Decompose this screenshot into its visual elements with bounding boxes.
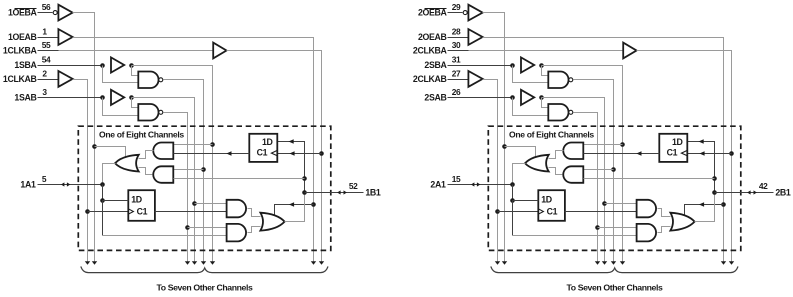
svg-text:One of Eight Channels: One of Eight Channels <box>509 130 594 140</box>
buffer 2CLKAB <box>468 71 482 87</box>
svg-text:1OEAB: 1OEAB <box>8 32 37 42</box>
buffer 1CLKAB <box>58 71 72 87</box>
arrow on OEAB enable wire <box>699 202 704 207</box>
svg-text:3: 3 <box>42 87 47 97</box>
AND gate A1m (SBA and B-register) <box>563 143 583 160</box>
junction 2A1 node <box>510 182 515 187</box>
arrow on B register data wire <box>289 139 294 144</box>
wire A real-time data riser <box>102 201 104 236</box>
svg-text:15: 15 <box>452 174 461 184</box>
wire A register Q to B-mux AND gate <box>565 211 637 213</box>
wire 2B1 pin to channel <box>715 192 774 194</box>
wire 2SBA raw to NAND <box>513 66 549 83</box>
svg-text:1OEBA: 1OEBA <box>8 8 38 18</box>
svg-text:27: 27 <box>452 68 461 78</box>
NAND gate G1 (inverts 1SBA) <box>138 72 158 89</box>
svg-text:29: 29 <box>452 2 461 12</box>
wire A1m output into A output OR gate <box>549 151 564 159</box>
wire B2m output into B output OR gate <box>658 227 671 233</box>
brace to seven other channels <box>81 266 328 272</box>
junction SAB-bar to B mux <box>595 225 600 230</box>
inverter bubble on 2OEBA buffer <box>463 11 467 15</box>
wire 2SBA input stub <box>448 65 513 67</box>
wire SAB select to B-mux AND gate <box>605 203 637 205</box>
NAND gate G2 (inverts 1SAB) <box>138 104 158 121</box>
AND gate B2m (SAB-bar and A real-time) <box>227 224 246 242</box>
wire SAB select to B-mux AND gate <box>195 203 227 205</box>
AND gate A2m (SBA-bar and B real-time) <box>153 166 173 183</box>
junction 1SBA raw <box>100 63 105 68</box>
wire G1 output (SBA-bar) bus <box>164 80 204 262</box>
wire G2 output (SAB-bar) bus <box>574 113 598 262</box>
wire A register Q to B-mux AND gate <box>155 211 227 213</box>
svg-text:2CLKAB: 2CLKAB <box>413 74 447 84</box>
wire 2SBA buffered to NAND top input <box>542 66 549 76</box>
buffer 2SBA <box>521 57 534 72</box>
wire 1SBA raw to NAND <box>103 66 139 83</box>
wire 1OEBA input stub <box>38 12 53 14</box>
junction 1SAB raw <box>100 95 105 100</box>
svg-text:5: 5 <box>42 174 47 184</box>
wire A driver output to A1 pin node <box>513 164 526 185</box>
buffer 1OEAB <box>58 29 72 45</box>
flip-flop A register (1D C1) <box>128 190 155 221</box>
arrow SAB-bar bus to other channels <box>185 261 190 265</box>
wire A1m output into A output OR gate <box>139 151 154 159</box>
AND gate B1m (SAB and A-register) <box>637 200 656 218</box>
wire 2SBA buffered select bus <box>542 66 623 262</box>
junction 2SBA raw <box>510 63 515 68</box>
wire 1SAB raw to NAND <box>103 98 139 116</box>
AND gate B2m (SAB-bar and A real-time) <box>637 224 656 242</box>
arrow OEBA-bus to other channels <box>92 261 97 265</box>
wire CLKBA to C1 of B flip-flop <box>688 153 732 155</box>
OR gate B output driver <box>260 213 284 231</box>
wire OEAB enable into B output gate <box>685 205 724 216</box>
arrow SBA-bus to other channels <box>620 261 625 265</box>
arrow CLKAB-bus to other channels <box>495 261 500 265</box>
wire 1CLKAB input stub <box>38 79 59 81</box>
svg-text:C1: C1 <box>547 207 558 217</box>
svg-text:C1: C1 <box>137 207 148 217</box>
NAND gate G1 (inverts 2SBA) <box>548 72 568 89</box>
wire A real-time data riser <box>512 201 514 236</box>
wire 1SAB buffered to NAND top input <box>132 98 139 108</box>
svg-text:26: 26 <box>452 87 461 97</box>
junction 2SBA buffered <box>539 63 544 68</box>
wire 2SAB buffered select bus <box>542 98 605 262</box>
arrow SBA-bar bus to other channels <box>201 261 206 265</box>
wire B1 node riser to B register data <box>278 142 305 193</box>
wire 2CLKAB input stub <box>448 79 469 81</box>
svg-text:1SAB: 1SAB <box>14 93 36 103</box>
svg-text:1CLKBA: 1CLKBA <box>3 46 38 56</box>
wire 1SAB buffered select bus <box>132 98 195 262</box>
junction CLKAB to A flip-flop clock <box>495 209 500 214</box>
svg-text:31: 31 <box>452 54 461 64</box>
junction CLKBA to B flip-flop clock <box>729 151 734 156</box>
wire SBA select to A-mux AND gate <box>174 144 213 146</box>
flip-flop B register (1D C1) <box>659 134 687 162</box>
junction CLKBA to B flip-flop clock <box>319 151 324 156</box>
wire 1A1 pin to channel <box>38 184 103 186</box>
buffer 1CLKBA <box>213 43 226 59</box>
svg-text:2A1: 2A1 <box>430 179 446 189</box>
junction OEBA enable branch <box>502 144 507 149</box>
wire SBA-bar to A-mux AND gate <box>584 169 614 171</box>
wire OEBA enable into A output gate <box>505 147 536 158</box>
svg-text:30: 30 <box>452 40 461 50</box>
arrow SAB-bus to other channels <box>192 261 197 265</box>
junction 1SAB buffered <box>129 95 134 100</box>
arrow SAB-bar bus to other channels <box>595 261 600 265</box>
arrow on B register Q wire <box>226 151 231 156</box>
svg-text:55: 55 <box>42 40 51 50</box>
dashed box: one of eight channels <box>488 126 741 250</box>
wire CLKAB to C1 of A flip-flop <box>498 211 539 213</box>
wire 2OEBA buffered to A-side enable bus <box>483 13 505 262</box>
svg-text:42: 42 <box>759 181 768 191</box>
wire 1OEAB input stub <box>38 37 59 39</box>
wire CLKAB to C1 of A flip-flop <box>88 211 129 213</box>
wire B driver output to B1 pin node <box>695 193 715 222</box>
wire G2 output (SAB-bar) bus <box>164 113 188 262</box>
OR gate A output driver <box>115 155 139 172</box>
buffer 1SBA <box>111 57 124 72</box>
wire 2CLKBA buffered to clock bus <box>637 51 732 262</box>
wire CLKBA to C1 of B flip-flop <box>278 153 322 155</box>
junction OEAB enable branch <box>311 202 316 207</box>
wire 1CLKAB buffered clock bus <box>73 80 88 262</box>
arrow on B register data wire <box>699 139 704 144</box>
junction B1 node <box>712 190 717 195</box>
wire 1SBA buffered to NAND top input <box>132 66 139 76</box>
wire A driver output to A1 pin node <box>103 164 116 185</box>
svg-text:54: 54 <box>42 54 51 64</box>
wire B driver output to B1 pin node <box>285 193 305 222</box>
wire OEAB enable into B output gate <box>275 205 314 216</box>
svg-text:1D: 1D <box>672 137 683 147</box>
arrow CLKBA-bus to other channels <box>319 261 324 265</box>
wire SAB-bar to B-mux AND gate <box>188 227 227 229</box>
junction OEBA enable branch <box>92 144 97 149</box>
arrow OEAB-bus to other channels <box>311 261 316 265</box>
arrow on B flip-flop clock wire <box>699 151 704 156</box>
svg-text:1A1: 1A1 <box>20 179 36 189</box>
svg-text:C1: C1 <box>667 148 678 158</box>
arrow on OEAB enable wire <box>289 202 294 207</box>
AND gate A1m (SBA and B-register) <box>153 143 173 160</box>
svg-text:C1: C1 <box>257 148 268 158</box>
junction SBA select to A mux <box>210 142 215 147</box>
svg-text:2OEBA: 2OEBA <box>418 8 448 18</box>
svg-text:2CLKBA: 2CLKBA <box>413 46 448 56</box>
svg-text:2OEAB: 2OEAB <box>418 32 447 42</box>
wire 2A1 pin to channel <box>448 184 513 186</box>
wire 2OEBA input stub <box>448 12 463 14</box>
wire 1SAB input stub <box>38 97 103 99</box>
wire B2m output into B output OR gate <box>248 227 261 233</box>
junction A data branch <box>510 198 515 203</box>
OR gate B output driver <box>670 213 694 231</box>
junction SBA select to A mux <box>620 142 625 147</box>
arrow OEAB-bus to other channels <box>721 261 726 265</box>
wire A real-time data to B-mux AND gate <box>103 235 227 237</box>
wire B register Q to A-mux AND gate <box>174 153 250 155</box>
wire 2SAB input stub <box>448 97 513 99</box>
inverter bubble on 1OEBA buffer <box>53 11 57 15</box>
wire A real-time data to B-mux AND gate <box>513 235 637 237</box>
svg-text:To Seven Other Channels: To Seven Other Channels <box>157 282 253 292</box>
buffer 2CLKBA <box>623 43 636 59</box>
NAND gate G2 (inverts 2SAB) <box>548 104 568 121</box>
junction SBA-bar to A mux <box>611 167 616 172</box>
wire 1OEAB buffered to B-side enable bus <box>73 38 314 262</box>
wire 2SAB raw to NAND <box>513 98 549 116</box>
wire 2OEAB buffered to B-side enable bus <box>483 38 724 262</box>
junction CLKAB to A flip-flop clock <box>85 209 90 214</box>
wire 1SBA input stub <box>38 65 103 67</box>
arrow CLKBA-bus to other channels <box>729 261 734 265</box>
wire 1B1 pin to channel <box>305 192 364 194</box>
junction SAB select to B mux <box>192 201 197 206</box>
bidirectional arrows at 1B1 <box>337 190 347 194</box>
svg-text:52: 52 <box>349 181 358 191</box>
wire 1CLKBA buffered to clock bus <box>227 51 322 262</box>
wire OEBA enable into A output gate <box>95 147 126 158</box>
wire A1 node down to A register data <box>102 185 104 201</box>
junction B1 node <box>302 190 307 195</box>
svg-text:1D: 1D <box>131 194 142 204</box>
svg-text:1D: 1D <box>541 194 552 204</box>
arrow on B flip-flop clock wire <box>289 151 294 156</box>
wire 2CLKBA to buffer <box>448 50 469 52</box>
junction A data branch <box>100 198 105 203</box>
svg-text:One of Eight Channels: One of Eight Channels <box>99 130 184 140</box>
svg-text:To Seven Other Channels: To Seven Other Channels <box>567 282 663 292</box>
AND gate A2m (SBA-bar and B real-time) <box>563 166 583 183</box>
junction SAB-bar to B mux <box>185 225 190 230</box>
dashed box: one of eight channels <box>78 126 330 250</box>
junction OEAB enable branch <box>721 202 726 207</box>
svg-text:56: 56 <box>42 2 51 12</box>
arrow SAB-bus to other channels <box>602 261 607 265</box>
wire B1m output into B output OR gate <box>658 209 671 217</box>
arrow on B register Q wire <box>636 151 641 156</box>
wire B1 node riser to B register data <box>688 142 715 193</box>
wire A1 node down to A register data <box>512 185 514 201</box>
svg-text:2: 2 <box>42 68 47 78</box>
junction B real-time branch <box>712 176 717 181</box>
junction 1SBA buffered <box>129 63 134 68</box>
svg-text:2B1: 2B1 <box>775 188 791 198</box>
wire A2m output into A output OR gate <box>549 168 563 175</box>
wire A2m output into A output OR gate <box>139 168 153 175</box>
wire 2SAB buffered to NAND top input <box>542 98 549 108</box>
wire B real-time data to A-mux AND gate <box>174 178 305 180</box>
wire B1m output into B output OR gate <box>248 209 261 217</box>
arrow SBA-bus to other channels <box>210 261 215 265</box>
wire 1CLKBA to buffer <box>38 50 59 52</box>
buffer 2OEAB <box>468 29 482 45</box>
wire 1SBA buffered select bus <box>132 66 213 262</box>
flip-flop A register (1D C1) <box>538 190 565 221</box>
buffer 1OEBA <box>58 5 72 21</box>
brace to seven other channels <box>491 266 738 272</box>
flip-flop B register (1D C1) <box>249 134 277 162</box>
wire B register Q to A-mux AND gate <box>584 153 660 155</box>
svg-text:2SBA: 2SBA <box>424 60 447 70</box>
wire 2CLKAB buffered clock bus <box>483 80 498 262</box>
junction B real-time branch <box>302 176 307 181</box>
junction 2SAB buffered <box>539 95 544 100</box>
junction SBA-bar to A mux <box>201 167 206 172</box>
wire 2OEAB input stub <box>448 37 469 39</box>
wire SBA-bar to A-mux AND gate <box>174 169 204 171</box>
svg-text:1: 1 <box>42 26 47 36</box>
buffer 2OEBA <box>468 5 482 21</box>
wire B real-time data to A-mux AND gate <box>584 178 715 180</box>
arrow CLKAB-bus to other channels <box>85 261 90 265</box>
AND gate B1m (SAB and A-register) <box>227 200 246 218</box>
svg-text:1CLKAB: 1CLKAB <box>3 74 37 84</box>
junction SAB select to B mux <box>602 201 607 206</box>
buffer 1SAB <box>111 90 124 105</box>
svg-text:1B1: 1B1 <box>365 188 381 198</box>
wire SAB-bar to B-mux AND gate <box>598 227 637 229</box>
buffer 2SAB <box>521 90 534 105</box>
junction 1A1 node <box>100 182 105 187</box>
bidirectional arrows at 2A1 <box>471 182 480 186</box>
wire SBA select to A-mux AND gate <box>584 144 623 146</box>
bidirectional arrows at 1A1 <box>61 182 70 186</box>
svg-text:2SAB: 2SAB <box>424 93 446 103</box>
OR gate A output driver <box>525 155 549 172</box>
wire A data into A register 1D <box>513 200 539 202</box>
arrow SBA-bar bus to other channels <box>611 261 616 265</box>
svg-text:1SBA: 1SBA <box>14 60 37 70</box>
svg-text:1D: 1D <box>262 137 273 147</box>
wire 1OEBA buffered to A-side enable bus <box>73 13 95 262</box>
bidirectional arrows at 2B1 <box>747 190 757 194</box>
junction 2SAB raw <box>510 95 515 100</box>
wire A data into A register 1D <box>103 200 129 202</box>
arrow OEBA-bus to other channels <box>502 261 507 265</box>
svg-text:28: 28 <box>452 26 461 36</box>
wire G1 output (SBA-bar) bus <box>574 80 614 262</box>
